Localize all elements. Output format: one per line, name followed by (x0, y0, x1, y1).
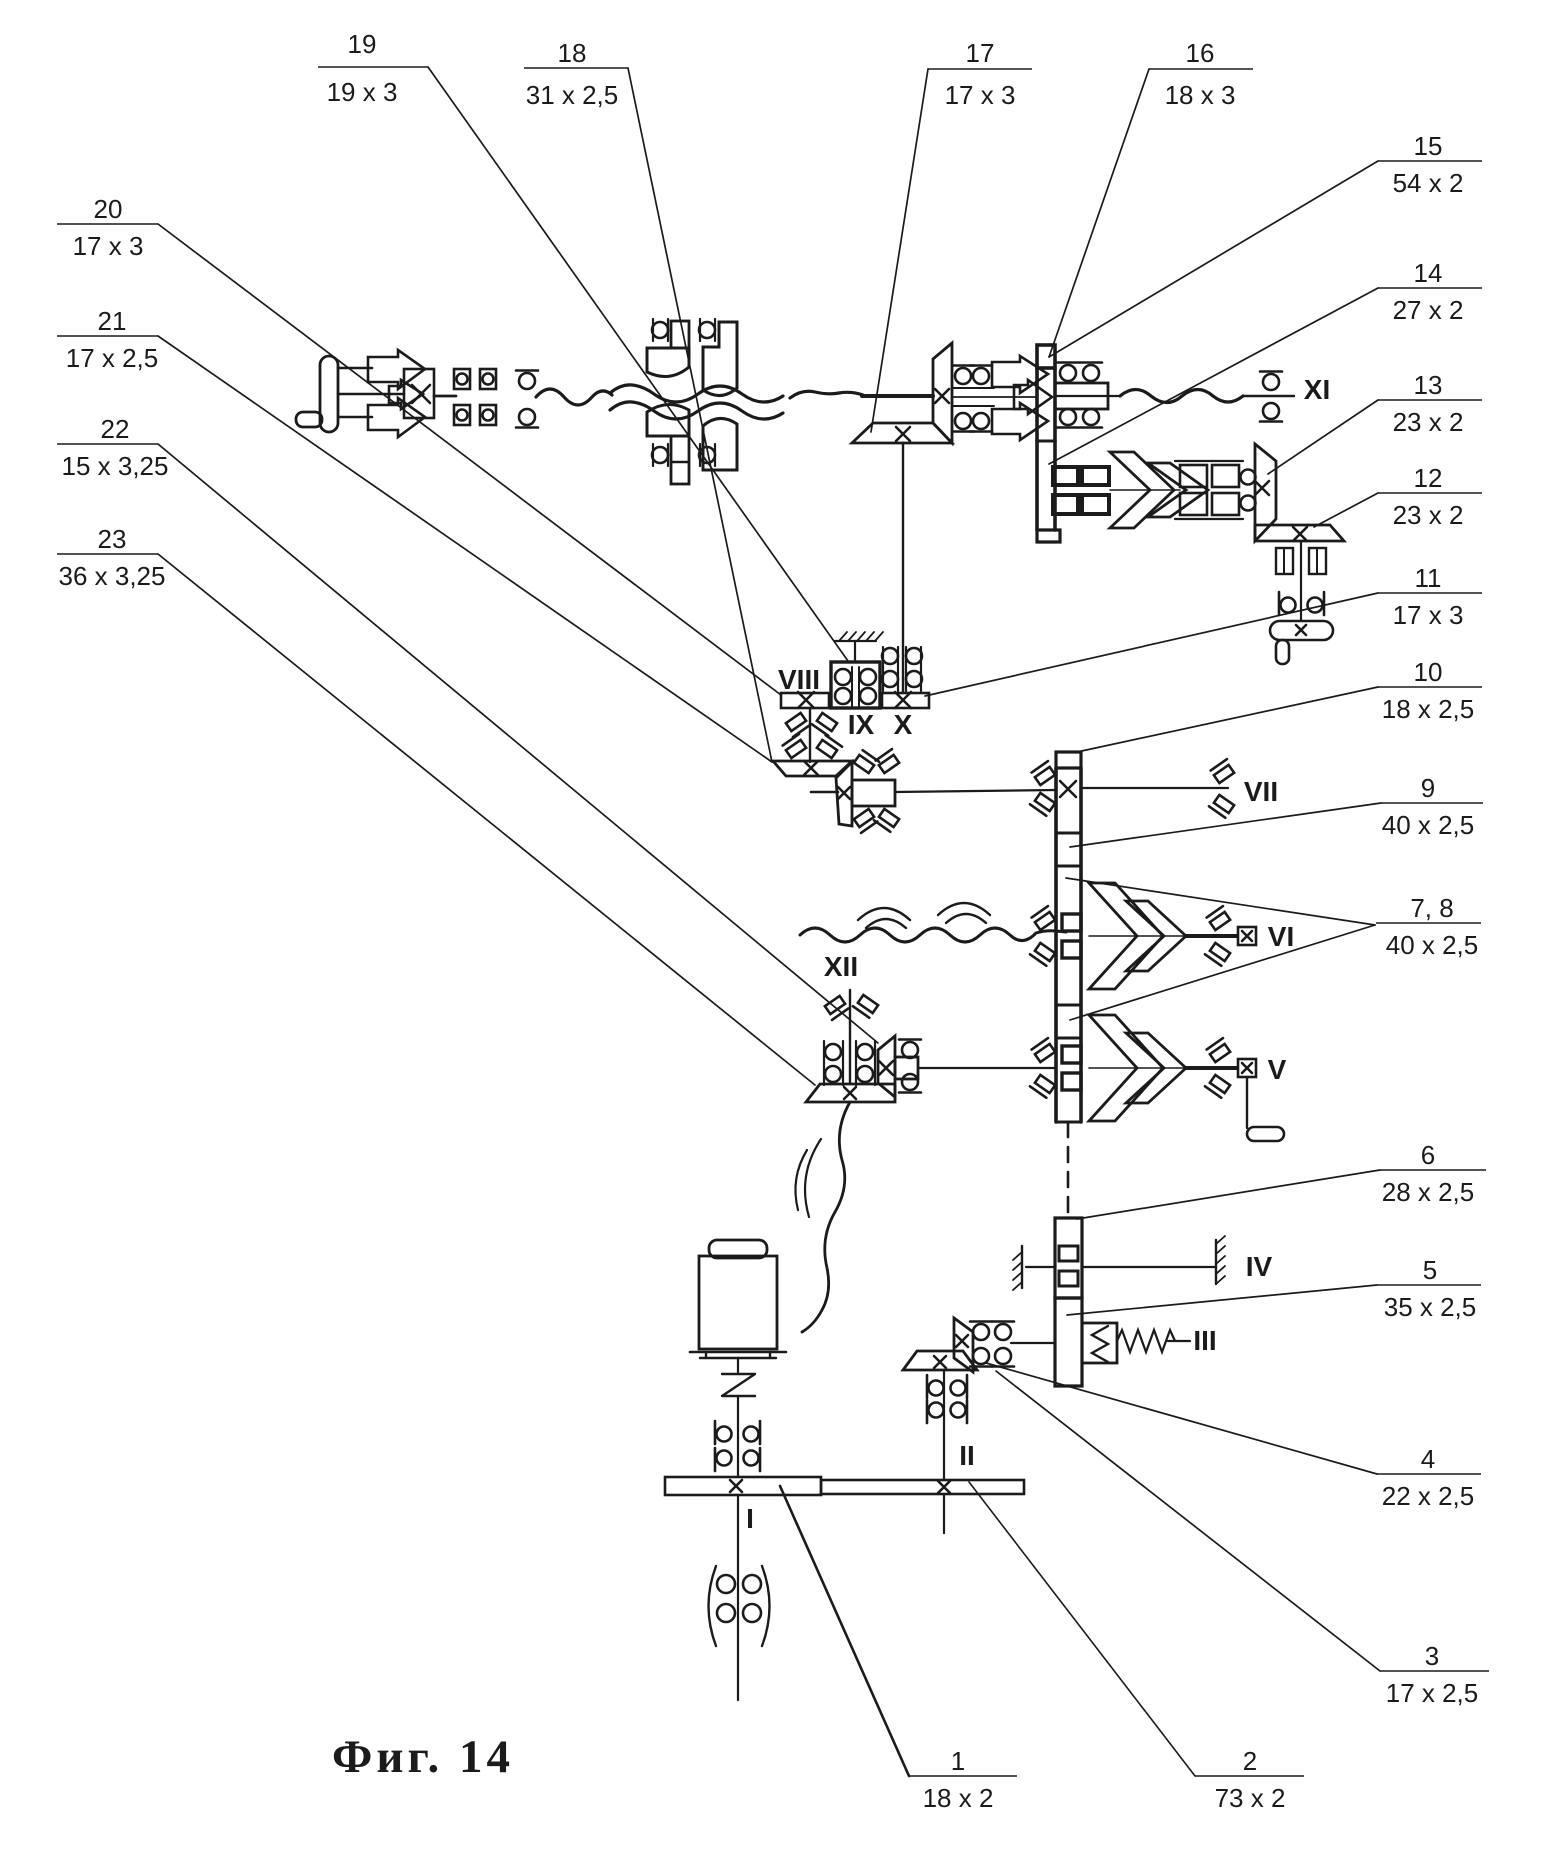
pin capsule (296, 412, 322, 427)
bearing column X right (906, 647, 922, 691)
label callout 6 (1380, 1140, 1486, 1207)
bearing I lower (715, 1448, 760, 1471)
bearing sigma pair upper C (952, 366, 992, 385)
spline mark VII left upper (1032, 761, 1057, 785)
bearing I paren right (762, 1566, 770, 1646)
gear 12 rect r1c1 (1180, 465, 1207, 487)
gear 19 chevron upper (368, 350, 425, 389)
shaft label VIII (778, 664, 820, 695)
gear 16 chevron lower (992, 403, 1048, 440)
svg-text:21: 21 (98, 306, 127, 336)
coupling wavy lower (610, 402, 783, 419)
leader 5 (1067, 1285, 1377, 1315)
shaft label V (1268, 1054, 1287, 1085)
gear 10 top rect (1056, 752, 1081, 768)
leader 7-8b (1070, 925, 1375, 1020)
label callout 19 (318, 29, 428, 107)
ground wall IV left (1013, 1246, 1022, 1290)
shaft label II (959, 1440, 975, 1471)
svg-text:II: II (959, 1440, 975, 1471)
svg-text:18 x 2: 18 x 2 (923, 1783, 994, 1813)
shaft VIII vertical (809, 708, 811, 762)
plate XII bevel 23 (806, 1084, 895, 1102)
label callout 1 (909, 1746, 1017, 1813)
leader 17 (871, 69, 928, 432)
coupling jaw upper-right (703, 322, 737, 396)
label callout 2 (1195, 1746, 1304, 1813)
svg-text:1: 1 (951, 1746, 965, 1776)
bearing sigma II right lower (970, 1348, 1014, 1367)
coupling jaw lower-right (703, 418, 737, 470)
label callout 18 (524, 38, 628, 110)
spring III (1117, 1330, 1175, 1352)
shaft label VII (1244, 776, 1278, 807)
svg-text:9: 9 (1421, 773, 1435, 803)
ground hatch E (835, 632, 883, 662)
svg-text:3: 3 (1425, 1641, 1439, 1671)
leader 23 (158, 554, 815, 1085)
bearing pair lower shaft XI (454, 405, 496, 425)
svg-text:17 x 3: 17 x 3 (73, 231, 144, 261)
shaft II below plate (943, 1494, 945, 1533)
svg-text:11: 11 (1415, 563, 1442, 593)
leader 11 (925, 593, 1378, 696)
svg-text:VI: VI (1268, 921, 1294, 952)
flange XII vertical (878, 1036, 895, 1097)
leader 4 (986, 1363, 1377, 1474)
axis line C (952, 388, 1037, 406)
shaft label IX (848, 709, 875, 740)
bearing block XII right (856, 1041, 875, 1085)
screw guide rect right (1309, 548, 1326, 574)
spline mark XII upper right (853, 994, 878, 1018)
svg-text:17 x 3: 17 x 3 (945, 80, 1016, 110)
coupling stem top (671, 321, 689, 348)
flange 13 vertical (1255, 444, 1276, 541)
svg-text:27 x 2: 27 x 2 (1393, 295, 1464, 325)
gear rails D (1175, 461, 1243, 519)
axis line D (1110, 489, 1180, 491)
shaft VII stub left (811, 791, 838, 794)
bar foot (1037, 530, 1060, 542)
label callout 21 (57, 306, 158, 373)
shaft III line (1168, 1340, 1190, 1342)
svg-text:20: 20 (94, 194, 123, 224)
svg-text:18: 18 (558, 38, 587, 68)
label callout 14 (1378, 258, 1482, 325)
splined bar X mark (1060, 781, 1076, 797)
svg-text:5: 5 (1423, 1255, 1437, 1285)
svg-text:54 x 2: 54 x 2 (1393, 168, 1464, 198)
gear hub rect XI right (1055, 383, 1120, 409)
label callout 15 (1378, 131, 1482, 198)
axis line VI (1089, 935, 1186, 937)
spline mark VI left lower (1030, 942, 1055, 966)
shaft I below plate (737, 1495, 739, 1562)
svg-text:6: 6 (1421, 1140, 1435, 1170)
svg-text:IV: IV (1246, 1251, 1273, 1282)
screw bearing left (1279, 592, 1296, 615)
leader 7-8a (1066, 878, 1375, 925)
leader 2 (969, 1482, 1195, 1776)
coupling jaw upper-left (647, 348, 689, 376)
shaft VI line (1186, 934, 1237, 938)
bearing column X left (882, 647, 898, 691)
gear 22 rect (895, 1057, 918, 1079)
hub connection lines (338, 368, 404, 417)
leader 10 (1077, 687, 1378, 752)
bearing circle D upper (1241, 470, 1256, 485)
gear 8 chevron outer (1089, 1015, 1163, 1121)
gear squares V lower (1062, 1073, 1081, 1090)
svg-text:19 x 3: 19 x 3 (327, 77, 398, 107)
bearing block XII left (824, 1041, 843, 1085)
detent box III (1082, 1323, 1117, 1363)
svg-text:23: 23 (98, 524, 127, 554)
clutch box VI (1238, 927, 1256, 945)
gear 7 chevron outer (1089, 883, 1163, 989)
spline mark V right lower (1205, 1074, 1230, 1098)
gear squares VI lower (1062, 941, 1081, 958)
bearing II below b (927, 1400, 967, 1423)
gear squares V upper (1062, 1046, 1081, 1063)
spline mark VIII lr (817, 735, 842, 759)
gear shaft bar lower (1037, 441, 1055, 530)
coupling bearing bottom-right (699, 444, 715, 466)
shaft V left segment (918, 1067, 1056, 1069)
leader 22 (158, 444, 878, 1043)
shaft label VI (1268, 921, 1294, 952)
svg-text:2: 2 (1243, 1746, 1257, 1776)
shaft XI straight segment (862, 394, 933, 398)
svg-text:19: 19 (348, 29, 377, 59)
leader 21 (158, 336, 772, 762)
shaft VII right segment (1081, 787, 1228, 789)
svg-text:36 x 3,25: 36 x 3,25 (59, 561, 166, 591)
spline V-mark upper left (854, 750, 879, 774)
gear 12 rect r1c2 (1212, 465, 1239, 487)
label callout 5 (1377, 1255, 1481, 1322)
bevel gear plate horizontal (852, 423, 952, 443)
motor coupling Z (722, 1358, 755, 1416)
leader 3 (996, 1371, 1380, 1671)
svg-text:I: I (746, 1503, 754, 1534)
leader 19 (428, 67, 848, 661)
leader 9 (1070, 803, 1381, 847)
gear 13 chevron inner (1148, 463, 1208, 517)
bevel 3 plate (903, 1351, 977, 1370)
svg-text:V: V (1268, 1054, 1287, 1085)
label callout 12 (1378, 463, 1482, 530)
label callout 23 (57, 524, 165, 591)
spline mark VI left upper (1032, 906, 1057, 930)
leader 20 (158, 224, 781, 695)
screw vertical line (1300, 541, 1302, 621)
svg-text:7, 8: 7, 8 (1410, 893, 1453, 923)
coupling bearing bottom-left (652, 444, 668, 466)
svg-text:12: 12 (1414, 463, 1443, 493)
svg-text:Фиг. 14: Фиг. 14 (332, 1731, 510, 1783)
svg-text:X: X (894, 709, 913, 740)
gear 19 chevron lower (368, 398, 425, 437)
shaft II vertical (943, 1371, 945, 1480)
shaft label XII (824, 951, 858, 982)
leader 16 (1049, 69, 1149, 357)
label callout 16 (1149, 38, 1253, 110)
gear 20 chevron middle (389, 380, 423, 409)
svg-text:17 x 2,5: 17 x 2,5 (1386, 1678, 1479, 1708)
gear 14 thick rect r2c2 (1082, 495, 1109, 514)
shaft I vertical (737, 1416, 739, 1477)
spline V-mark upper right (876, 749, 901, 773)
leader 6 (1077, 1170, 1380, 1219)
svg-text:XII: XII (824, 951, 858, 982)
shaft label XI (1304, 374, 1330, 405)
gear 7 chevron inner (1126, 901, 1186, 971)
svg-text:VII: VII (1244, 776, 1278, 807)
bearing I upper (715, 1421, 760, 1444)
svg-text:22: 22 (101, 414, 130, 444)
coupling stem bottom (671, 436, 689, 484)
bevel 4 flange vertical (954, 1318, 973, 1372)
svg-text:13: 13 (1414, 370, 1443, 400)
svg-text:15: 15 (1414, 131, 1443, 161)
spline mark VI right upper (1207, 906, 1232, 930)
gear 5 rect (1055, 1298, 1082, 1386)
svg-text:16: 16 (1186, 38, 1215, 68)
bevel gear 17 flange vertical (933, 343, 952, 443)
motor cap (709, 1240, 767, 1258)
coupling bearing top-right (699, 319, 715, 341)
svg-text:III: III (1193, 1325, 1216, 1356)
squiggle break arcs (795, 1139, 821, 1217)
svg-text:31 x 2,5: 31 x 2,5 (526, 80, 619, 110)
spline mark VIII ll (783, 734, 808, 758)
svg-text:35 x 2,5: 35 x 2,5 (1384, 1292, 1477, 1322)
bearing sigma XII lower (899, 1074, 921, 1093)
axis line V (1089, 1067, 1186, 1069)
svg-text:40 x 2,5: 40 x 2,5 (1386, 930, 1479, 960)
coupling wavy upper (610, 385, 783, 402)
gear squares VI upper (1062, 914, 1081, 931)
spline mark XII upper left (823, 996, 848, 1020)
gear square IV lower (1059, 1271, 1078, 1286)
spline mark V left upper (1032, 1038, 1057, 1062)
plate I (665, 1477, 821, 1495)
leader 15 (1049, 161, 1378, 357)
bevel pinion 10 rect (852, 780, 895, 806)
gear 13 chevron outer (1110, 452, 1174, 528)
screw bearing right (1308, 592, 1325, 615)
shaft X vertical line (902, 443, 904, 693)
label callout 4 (1377, 1444, 1481, 1511)
shaft label III (1193, 1325, 1216, 1356)
bearing circle D lower (1241, 496, 1256, 511)
coupling bearing top-left (652, 319, 668, 341)
shaft III left segment (1011, 1342, 1055, 1344)
bearing I circles (717, 1575, 761, 1622)
ground wall IV right (1216, 1236, 1225, 1284)
svg-text:4: 4 (1421, 1444, 1435, 1474)
nut oval (1270, 621, 1333, 640)
svg-text:40 x 2,5: 40 x 2,5 (1382, 810, 1475, 840)
bearing sigma upper bar (1057, 363, 1102, 382)
gear square IV upper (1059, 1246, 1078, 1261)
svg-text:28 x 2,5: 28 x 2,5 (1382, 1177, 1475, 1207)
spline mark VII right upper (1211, 759, 1236, 783)
dashed axis link (1067, 1122, 1070, 1218)
bevel gear 21 plate (773, 761, 852, 776)
bearing sigma pair lower C (952, 413, 992, 432)
bevel gear 18 flange (836, 762, 852, 826)
motor body (699, 1256, 777, 1349)
svg-text:22 x 2,5: 22 x 2,5 (1382, 1481, 1475, 1511)
svg-text:17 x 3: 17 x 3 (1393, 600, 1464, 630)
wavy break arcs a (858, 908, 910, 928)
label callout 22 (57, 414, 168, 481)
spline V-mark lower left (852, 809, 877, 833)
svg-text:23 x 2: 23 x 2 (1393, 500, 1464, 530)
svg-text:18 x 2,5: 18 x 2,5 (1382, 694, 1475, 724)
clutch sleeve X-box shaft XI (404, 369, 434, 418)
svg-text:14: 14 (1414, 258, 1443, 288)
plate X (882, 692, 929, 708)
wavy shaft XI right (1120, 390, 1243, 403)
bearing XI lower (1260, 403, 1282, 422)
label callout 11 (1378, 563, 1482, 630)
svg-text:23 x 2: 23 x 2 (1393, 407, 1464, 437)
gear 12 rect r2c1 (1180, 493, 1207, 515)
bearing pair upper shaft XI (454, 369, 496, 389)
nut pin (1276, 640, 1289, 664)
gear 8 chevron inner (1126, 1033, 1186, 1103)
figure caption (332, 1731, 510, 1783)
svg-text:17: 17 (966, 38, 995, 68)
shaft XII vertical (849, 990, 851, 1084)
gear 16 chevron upper (992, 356, 1048, 393)
shaft label IV (1246, 1251, 1273, 1282)
svg-text:IX: IX (848, 709, 875, 740)
coupling jaw lower-left (647, 404, 689, 436)
bearing sigma II right upper (970, 1322, 1014, 1341)
bearing sigma upper (516, 371, 538, 390)
flexible shaft squiggle (802, 1102, 850, 1332)
shaft IV left (1026, 1266, 1055, 1268)
gear 12 rect r2c2 (1212, 493, 1239, 515)
gear 6 rect (1055, 1218, 1082, 1298)
spline mark V right upper (1207, 1038, 1232, 1062)
label callout 17 (928, 38, 1032, 110)
shaft XI end segment (1243, 395, 1294, 397)
svg-text:17 x 2,5: 17 x 2,5 (66, 343, 159, 373)
svg-text:XI: XI (1304, 374, 1330, 405)
wavy input shaft (800, 928, 1066, 942)
bearing II below a (927, 1375, 967, 1398)
spline mark V left lower (1030, 1074, 1055, 1098)
spline V-mark lower right (874, 808, 899, 832)
label callout 7-8 (1376, 893, 1481, 960)
label callout 13 (1378, 370, 1482, 437)
shaft IV right (1082, 1266, 1216, 1268)
bearing sigma lower bar (1057, 409, 1102, 428)
spline mark VI right lower (1205, 942, 1230, 966)
bearing sigma lower (516, 409, 538, 428)
gear 14 thick rect r2c1 (1053, 495, 1078, 514)
svg-text:73 x 2: 73 x 2 (1215, 1783, 1286, 1813)
svg-text:18 x 3: 18 x 3 (1165, 80, 1236, 110)
shaft V line (1186, 1066, 1237, 1070)
wavy break arcs b (938, 903, 990, 923)
leader 13 (1268, 400, 1378, 474)
leader 18 (628, 68, 772, 762)
clutch box V (1238, 1059, 1256, 1077)
flange 12 plate (1255, 525, 1344, 541)
label callout 9 (1381, 773, 1483, 840)
shaft VII line (895, 790, 1056, 792)
spline mark VIII ul (784, 713, 809, 737)
wavy shaft XI left (536, 389, 612, 405)
bearing I paren left (709, 1566, 717, 1646)
gear 14 thick rect r1c2 (1082, 467, 1109, 485)
svg-text:VIII: VIII (778, 664, 820, 695)
spline mark VII right lower (1209, 794, 1234, 818)
leader 12 (1314, 493, 1378, 527)
label callout 20 (57, 194, 158, 261)
splined bar body (1056, 768, 1081, 1122)
label callout 3 (1380, 1641, 1489, 1708)
shaft label I (746, 1503, 754, 1534)
leader 1 (780, 1486, 909, 1776)
plate II (821, 1480, 1024, 1494)
svg-text:10: 10 (1414, 657, 1443, 687)
svg-text:15 x 3,25: 15 x 3,25 (62, 451, 169, 481)
shaft XI segment (434, 395, 456, 398)
label callout 10 (1378, 657, 1482, 724)
shaft I lower end (737, 1562, 739, 1700)
motor base (690, 1352, 786, 1358)
plate VIII (781, 692, 829, 708)
spline mark VII left lower (1030, 792, 1055, 816)
bearing sigma XII upper (899, 1040, 921, 1059)
gear chevron mid C (1014, 380, 1052, 414)
gear 15-16 shaft bar upper (1037, 345, 1055, 441)
crank below V (1247, 1077, 1284, 1141)
spline mark VIII ur (812, 712, 837, 736)
hub capsule on shaft XI left (320, 356, 338, 432)
bearing box IX (831, 662, 880, 708)
screw guide rect left (1276, 548, 1293, 574)
gear 14 thick rect r1c1 (1053, 467, 1078, 485)
bearing XI upper (1260, 372, 1282, 391)
shaft label X (894, 709, 913, 740)
leader 14 (1049, 288, 1378, 464)
wavy shaft XI right of coupling (790, 391, 863, 398)
